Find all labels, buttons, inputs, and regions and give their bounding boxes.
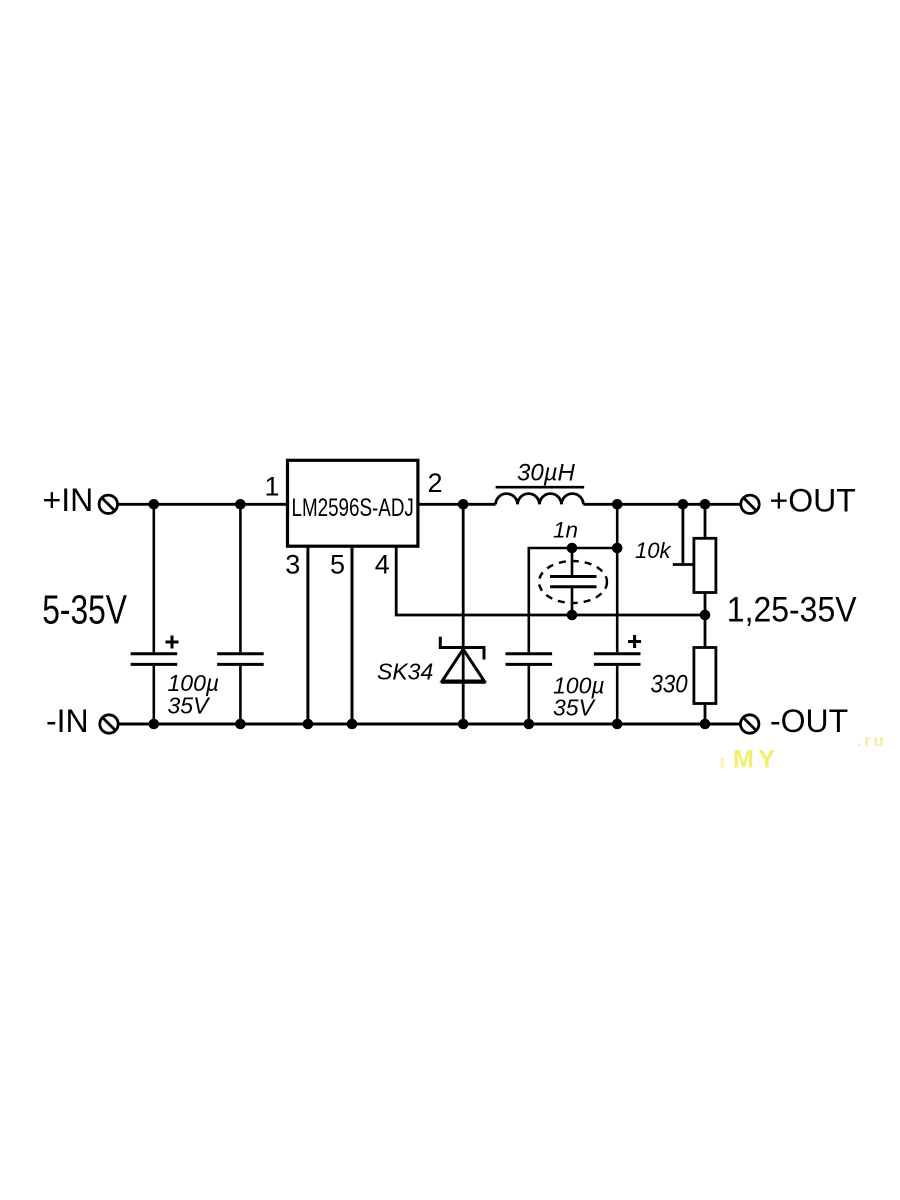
wire pin 3 to ground rail <box>306 547 309 725</box>
capacitor C4 output electrolytic with + <box>594 504 641 724</box>
svg-text:MY: MY <box>733 746 780 774</box>
node dot 1n top <box>567 543 578 554</box>
svg-text:330: 330 <box>651 671 688 698</box>
terminal +OUT <box>741 495 759 513</box>
svg-text:10k: 10k <box>635 538 671 563</box>
node dot output rail C4 <box>612 499 623 510</box>
wire top rail (inductor to +OUT) <box>583 503 741 506</box>
node dot bottom pin3 <box>303 719 314 730</box>
wire bottom rail <box>118 723 741 726</box>
capacitor C5 1n feedforward <box>539 548 607 615</box>
svg-text:30µH: 30µH <box>517 460 576 487</box>
node dot bottom C2 <box>235 719 246 730</box>
node dot top rail C2 <box>235 499 246 510</box>
node dot pin2/diode <box>458 499 469 510</box>
svg-text:LM2596S-ADJ: LM2596S-ADJ <box>292 493 414 521</box>
wire pin 5 to ground rail <box>351 547 354 725</box>
svg-text:1: 1 <box>265 472 280 502</box>
terminal +IN <box>99 495 117 513</box>
wire top rail right segment (pin2 to inductor) <box>419 503 496 506</box>
node dot bottom C4 <box>612 719 623 730</box>
node dot 1n bottom on FB <box>567 610 578 621</box>
node dot 10k top <box>700 499 711 510</box>
svg-text:1n: 1n <box>553 518 578 543</box>
svg-text:+OUT: +OUT <box>770 482 856 518</box>
wire top rail left segment <box>118 503 288 506</box>
svg-text:5-35V: 5-35V <box>42 587 127 633</box>
terminal -IN <box>100 715 118 733</box>
svg-text:5: 5 <box>330 549 345 579</box>
resistor R2 330 <box>694 648 716 725</box>
svg-text:-IN: -IN <box>46 703 89 739</box>
capacitor C1 100µ 35V input electrolytic <box>131 504 179 724</box>
svg-text:-OUT: -OUT <box>770 703 848 739</box>
svg-text:35V: 35V <box>168 693 212 719</box>
resistor R1 10k trimmer <box>673 504 716 592</box>
watermark fragment <box>721 757 724 768</box>
wire pin 4 feedback line <box>396 547 705 616</box>
svg-text:.ru: .ru <box>857 731 886 750</box>
node dot out sense <box>612 543 623 554</box>
svg-text:SK34: SK34 <box>377 659 433 685</box>
node dot bottom pin5 <box>347 719 358 730</box>
diode D1 SK34 schottky <box>439 504 486 724</box>
svg-text:3: 3 <box>285 550 300 580</box>
svg-text:4: 4 <box>375 549 390 579</box>
terminal -OUT <box>741 715 759 733</box>
wire divider mid node <box>704 593 707 648</box>
svg-text:35V: 35V <box>553 694 597 720</box>
wire 1n top node <box>529 548 617 652</box>
inductor L1 30uH <box>496 487 585 504</box>
node dot divider junction <box>700 610 711 621</box>
IC U1 LM2596S-ADJ box <box>288 460 418 546</box>
node dot bottom 330 <box>700 719 711 730</box>
svg-text:1,25-35V: 1,25-35V <box>727 591 857 630</box>
svg-text:2: 2 <box>428 468 443 498</box>
capacitor C2 input ceramic <box>217 504 264 724</box>
node dot top rail C1 <box>149 499 160 510</box>
node dot wiper top <box>678 499 689 510</box>
node dot bottom diode <box>458 719 469 730</box>
node dot bottom C3 <box>524 719 535 730</box>
capacitor C3 output 100µ left <box>506 654 553 724</box>
node dot bottom C1 <box>149 719 160 730</box>
svg-text:+IN: +IN <box>43 482 94 518</box>
